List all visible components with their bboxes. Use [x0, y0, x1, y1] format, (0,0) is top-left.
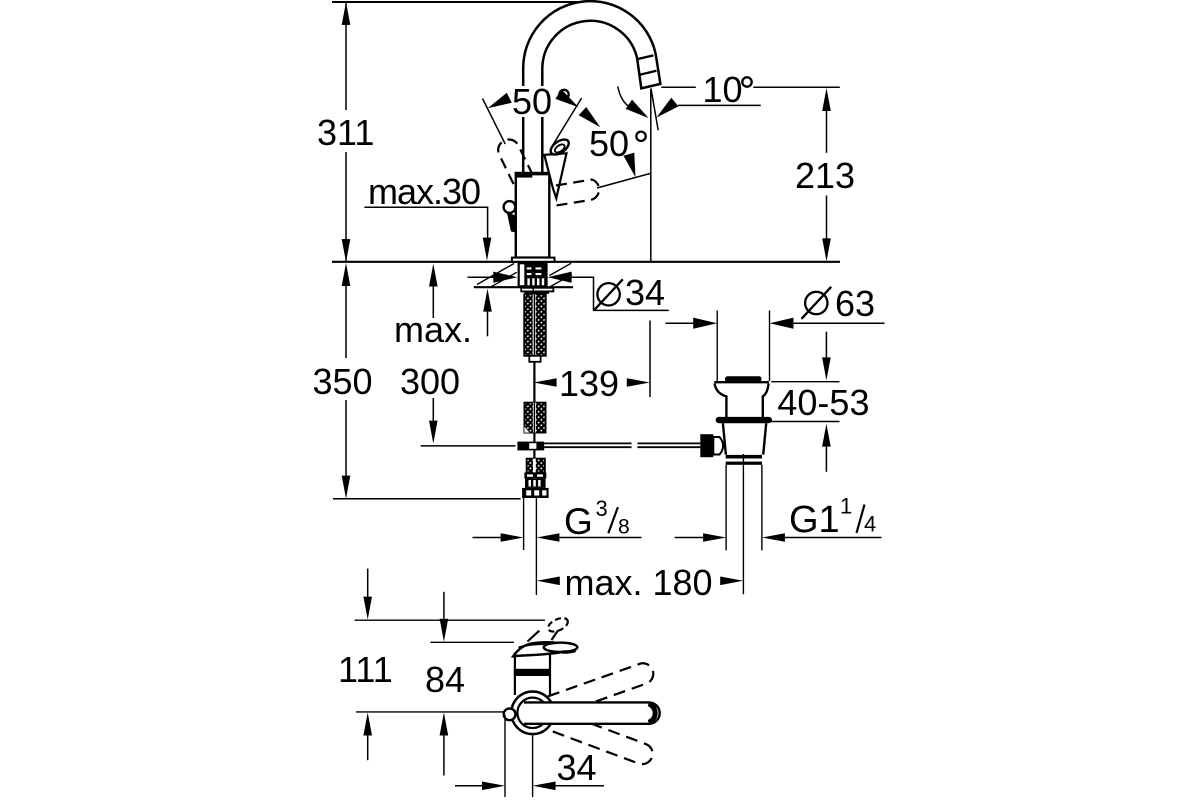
svg-text:300: 300 — [400, 361, 460, 402]
svg-text:50: 50 — [512, 81, 552, 122]
dimension 311 vertical line — [345, 2, 347, 110]
ref line top (lever tip level) — [355, 619, 546, 621]
svg-text:max.30: max.30 — [368, 171, 480, 212]
threaded shank through deck (black block) — [518, 263, 548, 287]
Ø63 dimension — [716, 311, 718, 382]
svg-text:max. 180: max. 180 — [565, 562, 713, 603]
front view: solid lever bar — [524, 702, 660, 723]
10 degree lower tail line — [678, 104, 761, 106]
hose wire 2 — [533, 433, 535, 442]
braided hose upper block — [524, 294, 546, 356]
dimension 350 vertical line — [342, 263, 351, 286]
front view: body — [515, 650, 550, 695]
svg-text:4: 4 — [864, 512, 876, 537]
Ø34 label — [597, 283, 619, 305]
svg-text:350: 350 — [313, 361, 373, 402]
deck bottom line — [474, 286, 573, 288]
braided hose middle block — [524, 403, 545, 433]
dashed handle right position — [553, 180, 599, 207]
deck top line — [332, 261, 840, 263]
pop-up flange top — [714, 381, 769, 383]
pop-up waste: plug cap — [725, 376, 762, 382]
outlet 10-degree tilted axis line — [651, 89, 658, 131]
10 degree left arrow — [626, 100, 652, 123]
svg-text:G1: G1 — [789, 499, 840, 541]
dashed handle left position — [495, 136, 533, 184]
dimension 34 — [455, 785, 482, 787]
solid lever knob (open cylinder end) — [548, 137, 571, 158]
svg-text:84: 84 — [425, 659, 465, 700]
ref line 84 top (cap level) — [431, 641, 515, 643]
dimension 311 top arrow — [342, 2, 351, 25]
supply pipe extension lines — [523, 498, 525, 550]
front view: swivel circles — [511, 692, 554, 735]
10 degree swivel arc — [618, 86, 630, 107]
svg-text:63: 63 — [835, 283, 875, 324]
svg-text:8: 8 — [618, 516, 630, 539]
svg-text:34: 34 — [625, 272, 665, 313]
pop-up coupling bands — [726, 455, 762, 459]
pop-up side knob — [700, 434, 713, 457]
dimension Ø34 line and arrows — [468, 276, 495, 278]
spout body (bent tube) — [523, 1, 660, 174]
front view: dashed lever down position — [548, 710, 656, 767]
dimension max.300 vertical line — [429, 264, 438, 287]
dimension 111 — [367, 569, 369, 597]
svg-text:111: 111 — [338, 649, 393, 690]
dimension 34 extension lines — [504, 715, 506, 797]
max.30 leader underline and drop line — [364, 207, 487, 238]
Ø63 label — [805, 292, 827, 314]
faucet body — [516, 173, 550, 258]
deck hatch left — [477, 264, 514, 285]
spout aerator band lines — [636, 55, 653, 59]
pop-up lower body — [723, 423, 766, 454]
hose wire 3 — [533, 450, 535, 458]
svg-text:311: 311 — [317, 112, 374, 153]
svg-text:40-53: 40-53 — [777, 382, 869, 423]
pop-up neck — [715, 384, 769, 418]
right 50 arrows — [579, 107, 604, 131]
base flange — [512, 258, 555, 262]
svg-text:1: 1 — [840, 494, 852, 519]
pop-up rod (double line) — [544, 442, 631, 444]
dimension 40-53 — [825, 332, 827, 358]
svg-text:3: 3 — [596, 496, 608, 521]
max.30 up arrow below deck — [483, 289, 492, 312]
lever right cap bold rim — [649, 704, 656, 723]
svg-text:139: 139 — [559, 363, 619, 404]
hose tee fitting — [517, 442, 544, 451]
front view: dashed lever up position — [548, 660, 656, 715]
top reference line (spout top level) — [332, 1, 591, 3]
drain tail extension lines — [725, 465, 727, 551]
139 right extension line (basin center) — [649, 321, 651, 398]
solid lever shaft — [544, 153, 566, 198]
pop-up O-ring band — [716, 417, 772, 423]
dimension 139 — [534, 378, 557, 387]
spout outlet centerline — [650, 89, 652, 262]
10 degree reference line (213 top level) — [661, 86, 696, 88]
right 50-degree leg line C — [597, 174, 650, 189]
ref line lever axis — [356, 711, 504, 713]
side mini lever circle — [504, 201, 516, 213]
svg-text:10: 10 — [703, 69, 743, 110]
G3/8 nut stack — [524, 472, 546, 478]
hose wire — [533, 362, 535, 403]
braided hose lower block — [527, 459, 545, 473]
G3/8 dimension — [473, 537, 501, 539]
left 50-degree leg line A — [483, 99, 506, 145]
front view: dashed closed handle knob — [546, 615, 570, 634]
left 50 text — [510, 86, 560, 117]
G1 1/4 dimension — [675, 537, 704, 539]
svg-text:34: 34 — [557, 747, 597, 788]
svg-text:max.: max. — [394, 309, 472, 350]
svg-text:G: G — [564, 501, 593, 542]
left 50 arrows — [485, 93, 511, 114]
body top black notch — [517, 173, 532, 177]
svg-text:50: 50 — [589, 123, 629, 164]
hose end stub — [529, 356, 540, 362]
mounting nut below deck — [521, 288, 553, 292]
bottom reference line (350 end) — [333, 498, 521, 500]
side mini lever black wedge — [507, 211, 516, 233]
dimension 84 — [443, 592, 445, 619]
front view: pivot small circle — [504, 708, 516, 720]
dimension 311 bottom arrow — [342, 239, 351, 262]
front view: handle cap (escutcheon) — [513, 642, 562, 656]
max. 180 dimension — [537, 577, 560, 586]
deck hatch right — [550, 263, 572, 275]
left 50-degree leg line B (lever axis) — [551, 98, 582, 148]
dimension 213 vertical line — [822, 88, 831, 111]
max.30 down arrow to deck — [483, 238, 492, 261]
10 degree right arrow — [653, 98, 679, 122]
max.300 reference line at hose tee — [421, 445, 516, 447]
svg-text:213: 213 — [795, 155, 855, 196]
